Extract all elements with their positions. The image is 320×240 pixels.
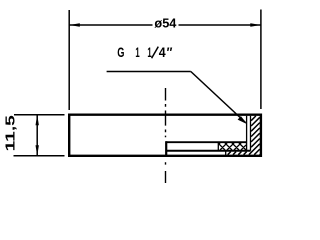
arrow up xyxy=(36,115,39,126)
thread inner line xyxy=(246,116,248,151)
band mid line xyxy=(166,150,250,152)
label G 1 1/4 xyxy=(117,45,173,60)
svg-text:11,5: 11,5 xyxy=(4,115,18,151)
arrow down xyxy=(36,145,39,156)
dim line 11,5 xyxy=(36,115,38,156)
dim 11,5 ext top xyxy=(14,114,65,116)
dim line Ø54 xyxy=(69,24,261,26)
svg-text:″: ″ xyxy=(167,45,173,60)
centerline xyxy=(165,88,167,183)
svg-text:ø54: ø54 xyxy=(154,17,176,31)
arrow left xyxy=(69,23,80,26)
leader arrowhead xyxy=(238,116,248,124)
dim ext line left xyxy=(68,10,70,110)
band top line xyxy=(166,141,246,143)
wall inner line xyxy=(250,116,252,151)
svg-text:G: G xyxy=(117,45,124,60)
part outline xyxy=(69,115,261,156)
arrow right xyxy=(250,23,261,26)
crosshatch: G 1 1/4 thread zone xyxy=(219,143,246,150)
svg-text:1: 1 xyxy=(135,45,140,60)
dim 11,5 ext bottom xyxy=(14,155,65,157)
fraction slash xyxy=(152,47,159,59)
strip divider xyxy=(225,151,227,156)
leader underline xyxy=(107,71,191,73)
crosshatch divider xyxy=(217,142,219,151)
leader diagonal xyxy=(191,72,246,123)
dim ext line right xyxy=(260,10,262,110)
section hatching: outer wall and bottom lip xyxy=(228,116,260,155)
washer left edge xyxy=(165,141,167,156)
svg-text:4: 4 xyxy=(159,45,166,60)
